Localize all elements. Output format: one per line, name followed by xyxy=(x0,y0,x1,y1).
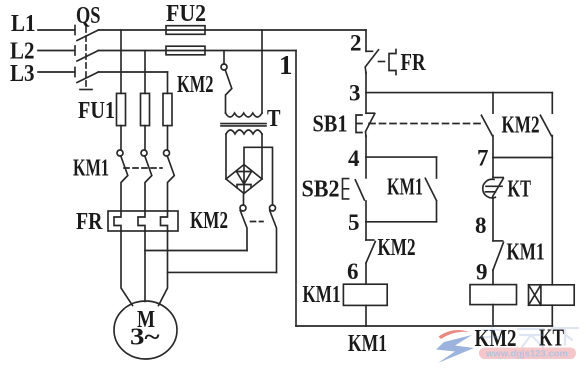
wire secondary right to bridge xyxy=(261,134,263,179)
wire node 4 xyxy=(366,156,437,158)
svg-text:FR: FR xyxy=(76,209,103,235)
svg-text:KM1: KM1 xyxy=(303,282,341,308)
wire 1 left control rail xyxy=(295,51,297,327)
wire FU1 to KM1 contacts xyxy=(121,126,168,150)
wire bridge DC bottom output xyxy=(243,194,245,206)
time relay KT delayed NC contact xyxy=(492,158,494,178)
coil KM2 xyxy=(470,285,517,305)
transformer T primary winding xyxy=(226,113,263,117)
wire L1 bus xyxy=(98,29,366,31)
svg-text:1: 1 xyxy=(279,50,293,80)
wire node 7 xyxy=(493,157,552,159)
watermark banner xyxy=(479,348,576,360)
thermal relay FR heater 1 xyxy=(114,211,121,231)
thermal relay FR box xyxy=(108,211,178,231)
wire L3 drop to FU1 xyxy=(167,72,169,93)
svg-text:8: 8 xyxy=(475,213,487,238)
svg-text:KM2: KM2 xyxy=(502,113,540,139)
contactor KM2 braking contact left xyxy=(240,205,246,211)
wire node 5 xyxy=(366,221,437,223)
contactor KM2 self-hold NO contact xyxy=(551,93,553,114)
coil KM1 xyxy=(343,284,387,305)
wire L1 corner down to control xyxy=(365,30,367,51)
wire KT coil to bus xyxy=(551,305,553,326)
svg-text:FU1: FU1 xyxy=(78,98,115,124)
rectifier bridge diode xyxy=(237,167,252,192)
contactor KM1 linkage dashed xyxy=(124,167,162,169)
svg-text:QS: QS xyxy=(76,3,101,29)
wire FR to motor phase 2 xyxy=(144,231,146,302)
switch QS blade L2 xyxy=(77,51,98,62)
svg-text:KM2: KM2 xyxy=(378,235,416,261)
thermal relay FR trip dash xyxy=(379,61,385,63)
svg-text:KT: KT xyxy=(508,177,532,203)
button SB2 NO contact xyxy=(365,157,367,178)
switch QS linkage tick xyxy=(80,89,92,91)
wire node 3 xyxy=(366,92,552,94)
rectifier bridge diamond xyxy=(226,165,262,194)
wire L1 to transformer primary xyxy=(261,30,263,113)
svg-text:SB1: SB1 xyxy=(313,112,348,138)
svg-text:SB2: SB2 xyxy=(302,177,340,203)
svg-text:3~: 3~ xyxy=(130,325,160,351)
wire braking to motor phase 2 xyxy=(145,250,247,252)
wire braking to motor phase 3 xyxy=(168,271,277,273)
contactor KM1 self-hold NO contact xyxy=(436,157,438,178)
button SB2 cap xyxy=(343,179,349,199)
wire FR to motor phase 3 xyxy=(159,231,168,306)
button SB1 NC contact xyxy=(365,93,367,114)
wire bridge DC top output xyxy=(244,147,273,205)
wire L1 to QS xyxy=(38,26,75,35)
svg-text:KM1: KM1 xyxy=(348,331,387,357)
svg-text:KM1: KM1 xyxy=(73,156,109,182)
thermal relay FR trip bracket xyxy=(389,50,396,75)
svg-text:www.dgjs123.com: www.dgjs123.com xyxy=(485,349,568,360)
fuse FU1 element 3 xyxy=(163,93,172,125)
svg-text:5: 5 xyxy=(348,210,360,235)
wire L2 bus xyxy=(98,50,296,52)
wire FR to motor phase 1 xyxy=(121,231,133,306)
thermal relay FR heater 2 xyxy=(138,211,145,231)
transformer T core xyxy=(221,124,266,126)
transformer T secondary winding xyxy=(226,130,262,134)
wire KM2 coil to bus xyxy=(492,305,494,326)
contactor KM2 top contact xyxy=(221,64,227,70)
coil KT xyxy=(529,285,575,305)
svg-text:6: 6 xyxy=(347,259,359,284)
watermark faint glyphs xyxy=(482,325,578,347)
contactor KM2 interlock NC contact xyxy=(365,222,367,240)
contactor KM1 main contact 1 xyxy=(117,150,123,156)
wire KT coil top xyxy=(551,158,553,285)
fuse FU2 element 2 xyxy=(166,46,205,55)
svg-text:9: 9 xyxy=(476,260,488,285)
wire L1 drop to FU1 xyxy=(120,30,122,93)
svg-text:7: 7 xyxy=(477,146,489,171)
wire secondary left to bridge xyxy=(225,134,227,179)
button SB1 cap xyxy=(356,115,362,133)
contactor KM1 main contact 3 xyxy=(164,150,170,156)
svg-text:L3: L3 xyxy=(10,61,35,87)
svg-text:3: 3 xyxy=(349,81,361,106)
svg-text:L1: L1 xyxy=(11,11,36,37)
motor M xyxy=(114,301,177,359)
wire L3 to QS xyxy=(38,68,75,77)
thermal relay FR NC contact xyxy=(366,50,373,52)
wire L2 to QS xyxy=(38,46,75,55)
switch QS blade L3 xyxy=(77,72,98,83)
svg-text:4: 4 xyxy=(348,146,360,171)
wire KM1 coil to bus xyxy=(365,305,367,326)
contactor KM2 braking contact right xyxy=(270,205,276,211)
fuse FU2 element 1 xyxy=(166,26,205,35)
wire bottom bus xyxy=(296,325,552,327)
time relay KT delay symbol xyxy=(483,179,496,198)
wire L2 drop to FU1 xyxy=(144,51,146,94)
svg-text:2: 2 xyxy=(350,31,362,56)
svg-text:FU2: FU2 xyxy=(166,1,206,27)
fuse FU1 element 1 xyxy=(117,93,126,125)
contactor KM2 braking linkage dashed xyxy=(251,221,264,223)
thermal relay FR heater 3 xyxy=(161,211,168,231)
button SB1 linkage dashed xyxy=(369,123,484,125)
svg-text:KM2: KM2 xyxy=(190,208,228,234)
wire L2 to KM2 top contact xyxy=(223,51,225,65)
switch QS linkage dashed xyxy=(85,27,87,89)
watermark logo swoosh xyxy=(436,330,474,363)
svg-text:KM1: KM1 xyxy=(387,175,423,201)
contactor KM1 main contact 2 xyxy=(141,150,147,156)
svg-text:T: T xyxy=(267,106,281,132)
svg-text:FR: FR xyxy=(401,50,427,76)
switch QS blade L1 xyxy=(77,30,98,41)
svg-text:KM1: KM1 xyxy=(507,240,545,266)
svg-text:KM2: KM2 xyxy=(177,72,214,98)
button SB1 NO linked contact xyxy=(492,93,494,114)
fuse FU1 element 2 xyxy=(141,93,150,125)
wire L3 bus xyxy=(98,71,167,73)
contactor KM1 interlock NC contact xyxy=(493,240,503,242)
